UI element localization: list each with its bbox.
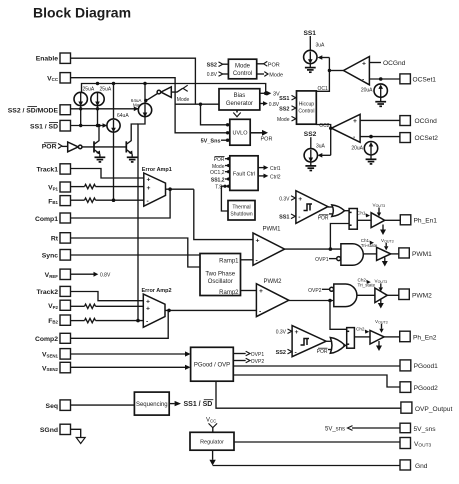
net SS2 into Mode Control [207,62,229,69]
svg-text:Tri_state: Tri_state [358,282,376,287]
svg-text:0.3V: 0.3V [279,196,290,202]
wire latch1 to driver En1 [357,219,371,221]
ground Q2 [127,154,138,162]
comparator PWM1 [253,227,285,266]
svg-text:VOUT3: VOUT3 [375,279,388,285]
comparator hysteresis 1 [296,191,328,224]
svg-text:SS2: SS2 [207,63,217,69]
wire driver En1 to Ph_En1 pin [385,219,401,221]
svg-text:Generator: Generator [226,101,253,107]
label Ch2 Tri_state [358,277,376,287]
node Fb2 64uA [136,319,140,323]
buffer driver PWM1 [377,247,391,260]
wire hyst2 to OR2 [326,340,331,342]
pin Vp1 [48,182,70,192]
supply Vout3 at driver PWM1 [381,238,394,250]
wire NAND1 to driver PWM1 [363,253,376,255]
svg-text:+: + [298,196,302,203]
svg-text:VOUT3: VOUT3 [381,238,394,244]
svg-text:+: + [147,176,151,183]
net 0.8V into Mode Control [207,72,229,79]
tristate arrow below driver PWM1 [382,258,388,267]
wire Comp2 feedback [71,310,169,338]
label Ch1 at En driver [357,211,370,218]
transistor Q1 [94,126,100,155]
node rail-64uA [112,82,115,85]
ground 20uA no2 [366,155,377,164]
wire Fb1 with resistor R-Fb1 [71,198,144,202]
inverter mode (left facing) [157,87,171,98]
wire OC1 minus to OCSet1 [369,78,400,80]
transistor Q2 [126,124,138,155]
block Sequencing [134,392,169,415]
svg-text:-: - [353,134,355,141]
svg-text:-: - [256,257,258,264]
wire Vp1 with resistor R-Vp1 [71,184,144,188]
wire ErrorAmp2 output to PWM2 [165,309,256,313]
wire Vref to 0.8V [71,272,111,279]
wire ErrorAmp1 output to PWM1 plus [194,189,253,239]
svg-text:Comp2: Comp2 [35,336,58,343]
svg-text:Ch1: Ch1 [357,211,366,216]
svg-text:FB1: FB1 [48,198,58,205]
tristate arrow below driver En2 [376,341,382,351]
net OVP2 into NAND2 [308,287,333,294]
net SS2 into hyst2 [276,349,292,356]
svg-text:0.8V: 0.8V [207,72,218,78]
pin PWM2 [399,289,432,300]
svg-text:Error Amp2: Error Amp2 [142,288,172,294]
wire driver to PWM1 pin [391,253,399,255]
svg-text:20uA: 20uA [361,88,373,94]
net Ctrl1 out of Fault [258,165,281,172]
wire OC2 plus to OCGnd pin [360,119,400,121]
svg-text:+: + [146,305,150,312]
svg-text:Regulator: Regulator [200,440,224,446]
node 3V [264,92,268,96]
gate OR1 [332,205,345,217]
comparator hysteresis 2 [292,326,326,357]
svg-text:OVP_Output: OVP_Output [415,406,453,413]
wire PGood1 [233,365,400,367]
svg-text:25uA: 25uA [83,86,95,92]
svg-text:VP2: VP2 [48,303,58,310]
svg-text:Sync: Sync [42,253,58,260]
svg-text:Fault Ctrl: Fault Ctrl [233,171,255,177]
ground SS1 source [305,64,316,72]
wire POR inverter to transistor bases [82,146,126,148]
net Ctrl2 out of Fault [258,174,281,181]
pin PGood2 [400,382,438,393]
svg-text:Mode: Mode [177,97,190,103]
supply Vcc at Regulator [206,418,217,433]
svg-text:20uA: 20uA [351,145,363,151]
svg-text:64uA: 64uA [117,113,129,119]
svg-text:5V_Sns: 5V_Sns [201,139,221,145]
net Mode out of Mode Control [257,72,283,79]
svg-text:Ramp2: Ramp2 [219,290,239,296]
wire NAND2 to driver PWM2 [357,294,375,296]
wire mode inverter output diagonal to Max riser [146,94,158,101]
net POR into OR1 [318,214,334,222]
wire OC2 minus to OCSet2 pin [360,136,400,138]
current source SS2 3uA [304,149,317,163]
current source 20uA no2 [364,142,377,155]
wire Vcc down to UVLO [71,78,230,133]
block Thermal Shutdown [228,201,255,221]
svg-text:+: + [256,237,260,244]
supply Vout3 at driver En1 [373,202,386,216]
svg-text:+: + [295,329,299,336]
tristate arrow below driver PWM2 [378,300,384,309]
svg-text:POR: POR [261,137,273,143]
svg-text:PWM1: PWM1 [263,227,282,233]
net OVP1 into NAND1 [315,257,341,264]
svg-text:Control: Control [298,108,314,114]
svg-text:Hiccup: Hiccup [299,101,315,107]
net SS1,2 into Fault [211,177,230,183]
pin PWM1 [399,248,432,258]
svg-text:SS1: SS1 [279,96,289,102]
node PWM1 tap [329,247,333,251]
svg-text:Ctrl1: Ctrl1 [270,166,281,172]
node PWM2 tap [328,299,332,303]
block Mode Control [228,59,256,79]
svg-text:Two Phase: Two Phase [205,272,235,278]
net POR into Fault [214,156,231,163]
block Bias Generator [219,89,260,110]
node max riser tap [144,99,147,102]
pin Comp2 [35,333,71,343]
svg-text:OC1: OC1 [318,86,329,92]
wire Enable to mode line [71,58,196,104]
net 3V arrow [260,91,280,98]
net SS1 into hyst1 [279,214,295,221]
svg-text:PWM2: PWM2 [264,279,283,285]
svg-text:Gnd: Gnd [415,463,428,470]
svg-text:Oscillator: Oscillator [208,279,233,285]
svg-text:Tri-state: Tri-state [361,243,378,248]
current source 25uA no2 [91,92,104,106]
current source 25uA no1 [74,92,87,106]
wire Vsen1 to PGood block [71,351,191,356]
node OCSet1 [379,77,383,81]
wire Rt to oscillator [71,238,201,267]
svg-text:FB2: FB2 [48,318,58,325]
net 0.3V into hyst2 [276,329,292,336]
wire mode inverter input and switch [171,88,182,92]
pin Gnd [400,460,428,470]
latch Ch2 enable [347,328,355,349]
wire Seq to Sequencing [71,404,135,406]
svg-text:POR: POR [214,157,225,163]
svg-text:+: + [259,288,263,295]
net Mode into Hiccup [277,116,297,123]
wire riser 64uA [113,84,115,120]
svg-text:Rt: Rt [51,236,59,243]
net 5V_sns stub arrow [325,426,400,433]
svg-text:OC2: OC2 [319,123,330,129]
pin SS1/SD [30,120,70,131]
node OC2 apex [329,127,332,130]
wire SS2/MODE line [71,108,139,110]
ground 20uA no1 [375,97,386,106]
ground SS2 source [305,162,316,171]
svg-text:Block Diagram: Block Diagram [33,5,131,21]
svg-text:Error Amp1: Error Amp1 [142,167,172,173]
net SS1/SD out of Sequencing [169,400,213,409]
wire Gnd line [213,465,400,467]
pin Vsen2 [42,362,71,373]
svg-text:VSEN2: VSEN2 [42,365,59,372]
svg-text:+: + [146,298,150,305]
svg-text:Comp1: Comp1 [35,216,58,223]
svg-text:Ctrl2: Ctrl2 [270,174,281,180]
wire latch2 to driver En2 [354,336,370,338]
wire PWM1 comparator output [285,248,341,250]
svg-text:SS2: SS2 [279,107,289,113]
svg-text:POR: POR [317,349,328,355]
wire SS1 label to source [309,36,311,51]
gate OR2 [330,338,345,354]
wire Track2 [71,292,144,301]
current source SS1 3uA [304,50,317,64]
wire Regulator to Vout3 pin [234,441,400,443]
svg-text:VOUT3: VOUT3 [375,319,388,325]
svg-text:POR: POR [268,62,280,68]
svg-text:OVP1: OVP1 [251,352,265,358]
pin Comp1 [35,213,71,223]
svg-text:+: + [147,185,151,192]
wire PGood2 [233,375,400,387]
svg-text:Track1: Track1 [36,167,58,174]
svg-text:SGnd: SGnd [40,427,58,434]
svg-text:Control: Control [233,71,252,77]
current source 20uA no1 [374,84,387,97]
svg-text:SS1 / SD: SS1 / SD [30,123,58,130]
node rail-64uAMax [143,82,146,85]
svg-text:-: - [298,214,300,221]
svg-text:+: + [353,118,357,125]
buffer driver En1 [371,213,385,228]
node rail-25uA2 [96,82,99,85]
svg-text:OCSet1: OCSet1 [413,77,437,84]
svg-text:Ph_En2: Ph_En2 [413,334,437,341]
svg-text:PGood / OVP: PGood / OVP [194,363,230,369]
svg-text:VSEN1: VSEN1 [42,352,59,359]
svg-text:Sequencing: Sequencing [136,402,168,408]
svg-text:SS2: SS2 [276,350,286,356]
block Fault Ctrl [230,156,258,191]
pin Fb1 [48,196,70,206]
wire 3V rail [82,84,266,94]
wire Regulator to Gnd line with arrow [209,450,215,465]
svg-text:Mode: Mode [235,63,251,69]
svg-text:Ramp1: Ramp1 [219,259,239,265]
net OVP2 out [233,358,264,365]
wire PWM2 comparator output [289,300,334,302]
svg-text:UVLO: UVLO [233,130,249,136]
svg-text:PGood2: PGood2 [414,385,439,392]
block Two Phase Oscillator [200,254,241,296]
wire SS2 label to source [310,137,312,149]
wire 25uA1 down to SS1 line [80,106,82,126]
svg-text:-: - [295,349,297,356]
net POR into Mode Control from right [257,61,280,68]
wire Track1 [71,169,144,179]
svg-text:Mode: Mode [277,117,290,123]
pin OCSet1 [400,74,436,84]
svg-text:VCC: VCC [206,418,216,424]
node UVLO in2 [226,131,229,134]
wire OR1 to latch1 [345,210,350,212]
svg-text:VCC: VCC [47,75,59,82]
ground Q1 [95,154,106,162]
node SS2-25uA1 [79,107,82,110]
wire T.S to Thermal Shutdown [221,186,228,211]
svg-text:0.3V: 0.3V [276,330,287,336]
svg-text:VOUT3: VOUT3 [373,202,386,208]
svg-text:VP1: VP1 [48,185,58,192]
wire ErrorAmp1 output [166,187,194,191]
node OCSet2 [369,135,373,139]
arrowhead into 64uA Max [134,107,139,112]
wire SS2 arrow from OC2 vertical [318,153,331,158]
node Fb1 64uA [112,198,116,202]
pin SS2/SD/MODE [8,105,71,115]
label 64uA Max [131,98,143,108]
svg-text:Thermal: Thermal [232,205,250,211]
pin Seq [46,400,71,411]
label Ch1 Tri-state [361,238,378,248]
wire mode line to bias generator [175,103,219,105]
node SS1-25uA2 [96,124,99,127]
pin Vref [45,269,71,279]
buffer driver En2 [370,330,384,344]
pin OVP_Output [401,402,453,413]
svg-text:SS2 / SD/MODE: SS2 / SD/MODE [8,107,59,114]
svg-text:Track2: Track2 [36,289,58,296]
comparator PWM2 [256,279,288,317]
net SS2 into Hiccup [279,106,296,113]
wire SS1/SD line [71,125,104,127]
current source 64uA [107,119,120,132]
svg-text:-: - [362,77,364,84]
svg-text:-: - [147,198,149,205]
wire hyst1 to OR1 [328,206,333,208]
wire SGnd to ground [71,429,81,437]
net 0.3V into hyst1 [279,196,295,203]
svg-text:OCGnd: OCGnd [415,118,438,125]
buffer driver PWM2 [375,288,387,303]
wire Fb2 with resistor R-Fb2 [71,318,144,322]
svg-text:OVP2: OVP2 [251,359,265,365]
pin 5V_sns [400,423,436,433]
pin OCGnd [400,116,437,126]
latch Ch1 enable [349,209,357,230]
block Regulator [190,432,234,450]
svg-text:OCGnd: OCGnd [383,60,406,67]
bias generator down arrow [233,110,240,117]
wire OR2 to latch2 [343,344,347,346]
net POR into OR2 [317,348,332,355]
net POR input stub with inverter [42,143,68,151]
label Ch2 at En driver [356,326,369,333]
pin PGood1 [400,360,438,371]
wire driver En2 to Ph_En2 pin [384,336,400,338]
svg-text:SS1: SS1 [304,30,317,37]
pin Ph_En1 [400,215,437,225]
svg-text:VREF: VREF [45,272,59,279]
node Q1 collector on SS1 line [97,124,100,127]
svg-text:Enable: Enable [36,56,59,63]
wire driver to PWM2 pin [387,294,399,296]
pin Sync [42,250,71,261]
block Hiccup Control [297,91,317,124]
wire 64uA down to Fb1 node [113,132,115,200]
svg-text:5V_sns: 5V_sns [325,426,345,432]
inverter POR (right facing) [68,142,82,152]
svg-text:SS1: SS1 [279,215,289,221]
node UVLO in1 [226,123,229,126]
supply Vout3 at driver PWM2 [375,279,388,292]
switch fork mode [183,85,188,91]
arrowhead into 64uA [103,123,108,128]
wire OC2 from Hiccup [316,125,330,156]
op-amp Error Amp1 [142,167,172,206]
pin Vp2 [48,300,70,310]
ground SGnd (open triangle) [76,438,85,444]
svg-text:SS1 / SD: SS1 / SD [184,401,213,408]
wire 64uA Max down jog to Fb2 node [138,117,145,321]
wire Comp1 feedback [71,189,171,218]
op-amp Error Amp2 [142,288,172,328]
svg-text:Seq: Seq [46,403,58,410]
pin SGnd [40,424,71,434]
wire OC1 plus to OCGnd [369,60,405,67]
svg-text:SS1,2: SS1,2 [211,178,225,184]
svg-text:25uA: 25uA [100,86,112,92]
svg-text:Ph_En1: Ph_En1 [414,218,438,225]
svg-text:Mode: Mode [269,72,283,78]
pin Rt [51,233,71,243]
pin OCSet2 [400,133,438,143]
svg-text:0.8V: 0.8V [269,102,280,108]
net 5V_Sns into UVLO [201,139,230,145]
pin Track2 [36,286,70,296]
svg-text:0.8V: 0.8V [100,272,111,278]
wire Ramp2 to PWM2 plus [241,290,257,292]
pin Vsen1 [42,349,71,360]
net Mode into Fault [212,164,230,170]
pin Vcc [47,73,70,83]
svg-text:POR: POR [42,144,57,151]
svg-text:OVP1: OVP1 [315,257,329,263]
net OC1,2 into Fault [210,170,230,176]
tristate arrow below driver En1 [380,225,386,236]
svg-text:-: - [146,318,148,325]
pin Ph_En2 [400,331,437,342]
svg-text:SS2: SS2 [304,131,317,138]
net SS1 into Hiccup [279,95,296,102]
node SS2-25uA2 [96,107,99,110]
svg-text:+: + [362,60,366,67]
wire Vp2 with resistor R-Vp2 [71,304,144,308]
net POR out of UVLO [250,130,272,143]
svg-text:3uA: 3uA [316,42,326,48]
node mode line branch [199,103,202,106]
node SS1-25uA1 [79,124,82,127]
